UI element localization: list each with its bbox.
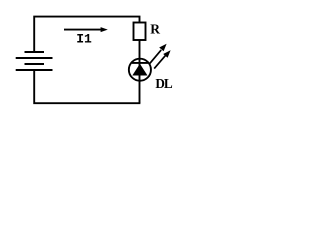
- svg-text:R: R: [150, 22, 160, 37]
- svg-text:DL: DL: [155, 76, 173, 91]
- svg-text:I1: I1: [76, 32, 92, 47]
